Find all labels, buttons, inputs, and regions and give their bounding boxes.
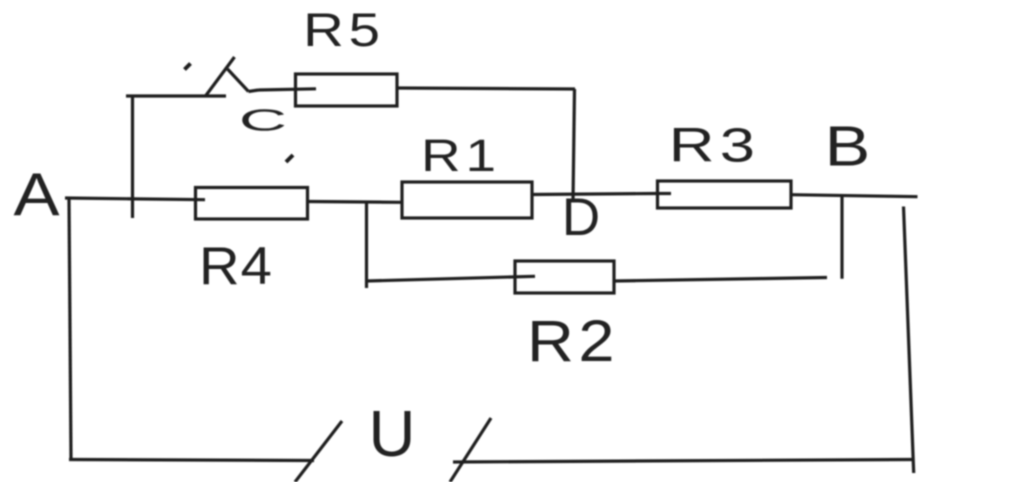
svg-text:R4: R4 (199, 236, 273, 295)
svg-text:R1: R1 (421, 131, 501, 181)
svg-text:A: A (13, 160, 59, 228)
svg-text:B: B (825, 115, 871, 178)
svg-text:C: C (239, 103, 287, 138)
svg-text:D: D (562, 188, 600, 247)
svg-text:U: U (369, 397, 416, 470)
svg-text:R2: R2 (527, 309, 619, 374)
svg-text:R3: R3 (669, 118, 761, 172)
svg-text:R5: R5 (303, 4, 385, 57)
